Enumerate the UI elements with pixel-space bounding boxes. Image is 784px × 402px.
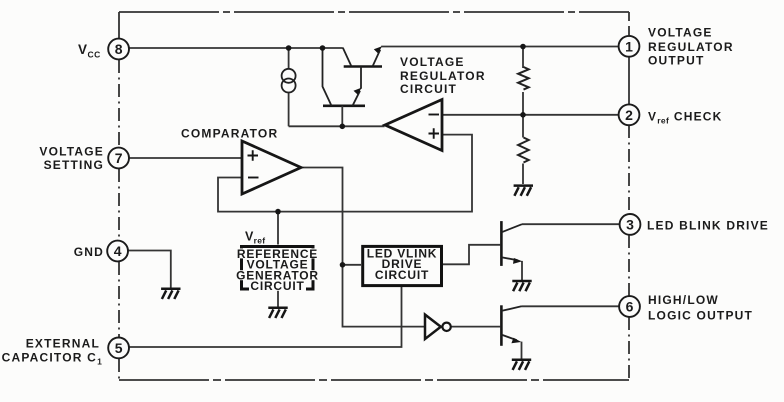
transistor Q4 emitter lead with arrow (501, 335, 516, 341)
svg-text:Vref CHECK: Vref CHECK (648, 110, 723, 126)
svg-text:EXTERNAL: EXTERNAL (26, 336, 100, 350)
inverter U3 triangle with bubble (425, 315, 441, 339)
wire: regulator op-amp output line to Q2 base node (289, 125, 385, 127)
ground symbol at pin 4 (161, 289, 180, 299)
current source I1 (two overlapping circles) (282, 69, 296, 83)
svg-text:VOLTAGE: VOLTAGE (39, 144, 104, 158)
pin 5 circle (108, 338, 129, 359)
IC package boundary: bottom border (dash-dot) (119, 379, 629, 381)
svg-text:5: 5 (115, 340, 123, 356)
pin 7 circle (108, 148, 129, 169)
svg-text:7: 7 (115, 150, 123, 166)
IC package boundary: top border (dash-dot) (119, 11, 629, 13)
wire: pin 5 external capacitor line to LED drive box bottom (129, 287, 402, 347)
svg-text:Vref: Vref (245, 230, 265, 246)
wire: inverter output to Q4 base (451, 326, 500, 328)
IC package boundary: left border solid segment above pin 8 (118, 12, 120, 38)
node: junction dot Vcc rail / current source (286, 45, 292, 51)
IC package boundary: left border segment pin8-pin7 (dash-dot) (118, 60, 120, 147)
svg-text:3: 3 (626, 217, 634, 233)
resistor R1 (upper divider resistor) (518, 67, 529, 90)
transistor Q2 (Darlington driver): base bar (323, 105, 365, 108)
ground symbol at Q4 emitter (512, 360, 531, 370)
svg-text:REGULATOR: REGULATOR (400, 69, 486, 83)
svg-text:REGULATOR: REGULATOR (648, 40, 734, 54)
svg-text:VCC: VCC (78, 42, 101, 60)
svg-text:1: 1 (625, 38, 633, 54)
ground symbol below resistor divider (514, 186, 533, 196)
svg-text:LOGIC OUTPUT: LOGIC OUTPUT (648, 309, 753, 323)
svg-text:VOLTAGE: VOLTAGE (400, 55, 465, 69)
IC package boundary: left border segment pin4-pin5 (dash-dot) (118, 262, 120, 337)
svg-text:GND: GND (74, 245, 104, 259)
wire: pin 7 to comparator plus input (129, 157, 242, 159)
transistor Q1 collector lead (343, 48, 352, 67)
op-amp U1 comparator triangle (242, 141, 301, 194)
LED VLINK drive circuit box U4 (363, 246, 442, 285)
wire: pin 4 to ground (128, 251, 171, 288)
wire: Q4 collector to pin 6 (522, 305, 620, 307)
U1 minus input symbol (248, 177, 259, 179)
wire: tap from comparator output line into LED drive box (343, 264, 362, 266)
svg-text:LED BLINK DRIVE: LED BLINK DRIVE (647, 219, 769, 233)
svg-text:4: 4 (114, 243, 122, 259)
svg-text:CIRCUIT: CIRCUIT (375, 268, 429, 282)
svg-text:VOLTAGE: VOLTAGE (648, 26, 713, 40)
svg-text:2: 2 (625, 107, 633, 123)
transistor Q2 base lead from op-amp output (341, 106, 343, 127)
transistor Q1 (pass Darlington output device): base bar (344, 65, 382, 68)
wire: Q4 emitter to ground (521, 342, 523, 359)
svg-text:SETTING: SETTING (44, 158, 104, 172)
ground symbol at Q3 emitter (512, 281, 531, 291)
svg-text:6: 6 (626, 299, 634, 315)
wire: comparator minus feedback loop to regulator plus input (218, 135, 472, 212)
wire: Vcc rail from pin 8 to Q1 collector (129, 47, 343, 49)
IC package boundary: right border segment below pin 6 (dash-dot) (628, 317, 630, 380)
transistor Q2 collector lead (323, 48, 332, 106)
reference voltage generator circuit block (thick box) (242, 247, 314, 290)
transistor Q3 (LED blink drive): base bar (500, 221, 503, 266)
wire: resistor divider vertical leads (522, 47, 524, 185)
wire: comparator output down to inverter input (301, 168, 425, 327)
U2 minus input symbol (429, 114, 440, 116)
transistor Q1 emitter lead with arrow (373, 50, 381, 67)
pin 1 circle (619, 36, 640, 57)
IC package boundary: right border segment pin2-pin3 (dash-dot) (628, 125, 630, 214)
pin 2 circle (619, 104, 640, 125)
U2 plus input symbol (429, 128, 440, 138)
IC package boundary: right border dashed segment above pin 1 (628, 12, 630, 36)
IC package boundary: right border segment pin3-pin6 (dash-dot) (628, 235, 630, 296)
wire: Vref node drop to reference generator block (277, 212, 279, 245)
wire: output rail from Q1 emitter to pin 1 (381, 46, 618, 48)
wire: LED drive box output jog to Q3 base (443, 245, 500, 264)
wire: current source bottom lead to regulator output line (288, 92, 290, 126)
wire: regulator minus input to resistor tap to pin 2 (443, 114, 619, 116)
wire: pin1 to pin2 vertical connection (628, 57, 630, 105)
node: junction dot Vref tap (275, 209, 281, 215)
resistor R2 (lower divider resistor) (518, 138, 529, 163)
wire: reference generator block to ground (277, 291, 279, 307)
svg-text:COMPARATOR: COMPARATOR (181, 127, 278, 141)
node: junction dot Q2 base / op-amp output (340, 124, 346, 130)
op-amp U2 voltage regulator error amp triangle (points left) (385, 100, 442, 151)
node: junction dot LED drive box input tap (340, 262, 346, 268)
ground symbol below reference generator block (268, 308, 287, 318)
wire: current source top lead (288, 48, 290, 69)
IC package boundary: left border segment pin7-pin4 (dash-dot) (118, 169, 120, 240)
svg-text:CIRCUIT: CIRCUIT (400, 82, 457, 96)
transistor Q2 emitter lead with arrow, to Q1 base (353, 67, 362, 106)
transistor Q4 (logic output): base bar (500, 305, 503, 346)
pin 6 circle (619, 296, 640, 317)
transistor Q3 collector lead (501, 224, 522, 232)
U1 plus input symbol (248, 150, 259, 160)
pin 3 circle (620, 214, 641, 235)
transistor Q3 emitter lead with arrow (501, 257, 517, 260)
node: junction dot Vcc rail / Q1 Q2 collectors (320, 45, 326, 51)
IC package boundary: left border segment below pin 5 (118, 359, 120, 380)
svg-text:OUTPUT: OUTPUT (648, 54, 705, 68)
pin 4 circle (107, 241, 128, 262)
svg-text:8: 8 (115, 41, 123, 57)
node: junction dot output rail / R1 top (520, 44, 526, 50)
wire: Q3 emitter to ground (521, 261, 523, 281)
wire: Q3 collector to pin 3 (522, 223, 620, 225)
pin 8 circle (108, 39, 129, 60)
transistor Q4 collector lead (501, 306, 521, 311)
svg-text:HIGH/LOW: HIGH/LOW (648, 293, 719, 307)
svg-text:CAPACITOR C1: CAPACITOR C1 (2, 350, 103, 366)
node: junction dot divider tap / pin2 line (520, 112, 526, 118)
svg-text:CIRCUIT: CIRCUIT (250, 279, 304, 293)
